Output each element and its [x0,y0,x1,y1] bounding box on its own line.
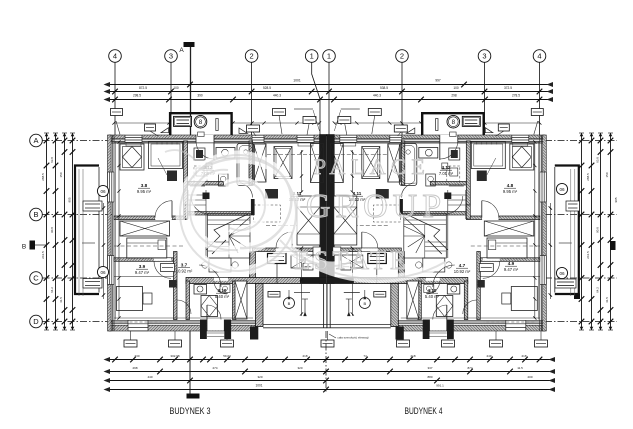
wall room3.8 right [184,141,188,205]
svg-text:249: 249 [486,354,491,358]
svg-text:06: 06 [559,187,565,192]
wardrobe X room 3.7 [120,221,170,236]
slope arrow patio [304,299,306,314]
dashed shower square bath 3.12 [194,166,207,185]
svg-text:ESTATE: ESTATE [294,246,410,275]
small square near party wardrobe [313,247,321,255]
bottom porch wall right [224,320,231,340]
ramp triangle left of porch [161,128,169,133]
dark label box 3.11 [265,189,278,199]
section flag A top [184,42,195,47]
svg-text:D: D [33,317,39,326]
chair room 3.9 [143,293,152,304]
svg-text:7.05 m²: 7.05 m² [439,171,454,176]
wall 3.7|3.9 [114,258,174,262]
dashed beam line 3.11 [266,225,319,227]
svg-text:10.92 m²: 10.92 m² [176,269,193,274]
grid bubble 4 at x=539.5 [533,50,546,63]
label box GZ near party bottom [303,264,313,271]
right building (mirror) [327,109,579,340]
svg-text:41.5: 41.5 [605,297,609,303]
label boxes above top wall [111,109,123,116]
grid bubble A left [30,134,43,147]
entry door leaf+arc [213,143,215,160]
svg-text:4: 4 [113,52,117,61]
tiny marks along top wall interior [156,142,158,145]
svg-text:298.5: 298.5 [133,94,141,98]
label box KZ at 227 [221,340,234,347]
axis line 4 [539,63,541,136]
label box KZ at 130.5 [124,340,137,347]
svg-text:3.7: 3.7 [181,263,188,268]
door 3.11 [276,248,292,251]
svg-text:63.8: 63.8 [596,157,600,163]
svg-text:4.7: 4.7 [459,263,466,268]
interior dim chain 3.11 [301,150,303,192]
side dimension chain 1 [46,133,48,330]
svg-text:150: 150 [59,172,63,177]
grid bubble 2 at x=251.6 [245,50,258,63]
axis line 1 [328,63,330,136]
svg-text:298: 298 [132,366,137,370]
svg-text:1001: 1001 [255,384,262,388]
window left wall lower [108,256,115,285]
thin line under rooms [114,276,174,278]
svg-text:3: 3 [169,52,173,61]
svg-text:11.5: 11.5 [517,366,523,370]
outer wall bottom [109,319,256,321]
top dimension line 2 [107,91,550,93]
label box lower left [161,264,175,272]
svg-text:150: 150 [605,172,609,177]
axis line 4 [114,63,116,136]
bath3.10 door [214,278,228,281]
party wall center gap [326,136,328,283]
svg-text:218: 218 [302,354,307,358]
svg-text:4: 4 [537,52,541,61]
label box KZ at 496 [490,340,503,347]
svg-text:390: 390 [197,94,203,98]
side dimension chain 2 [591,133,593,330]
stair upper flight treads [188,194,206,196]
hall circles bottom [284,298,295,309]
party fence thin [323,284,325,328]
top dimension line 3 [107,99,550,101]
svg-text:440.3: 440.3 [373,94,381,98]
back door opening bottom wall [207,320,224,331]
terrace slope note [82,242,95,244]
svg-text:1: 1 [327,52,331,61]
bottom dimension line 4 [107,389,552,391]
inner wall face lines [115,141,117,320]
axis line 2 [401,63,403,136]
toilet bath 3.10 [194,285,207,295]
grid line C [43,277,115,279]
svg-text:90.8: 90.8 [596,227,600,233]
bottom dimension line 3 [107,380,552,382]
label box KZ inside hall [268,292,280,298]
svg-text:440: 440 [147,375,152,379]
stairs left building [208,214,251,259]
party wall (half) [320,135,328,284]
side dimension chain 4 [610,133,612,330]
grid bubble 4 at x=115 [109,50,122,63]
window top wall room 3.11 [297,135,314,143]
svg-text:3.10: 3.10 [218,288,227,293]
dresser room 3.8 [149,142,183,169]
corridor wall extension [184,205,188,219]
exterior dim line above wall right [233,122,320,124]
terrace circle 06 lower right [556,267,567,278]
bath3.10 right wall [233,281,237,320]
svg-text:288.5: 288.5 [586,173,590,181]
svg-text:90.8: 90.8 [50,227,54,233]
svg-text:B: B [22,244,26,251]
washer dark box bath 3.12 [194,148,205,160]
wardrobe X 3.11 [274,147,292,179]
svg-text:3.8: 3.8 [141,183,148,188]
svg-text:64.2: 64.2 [596,287,600,293]
grid line B [43,214,115,216]
door arc room 3.8 [155,216,172,219]
terrace outline [75,166,99,295]
svg-text:9.47 m²: 9.47 m² [135,270,150,275]
svg-text:905: 905 [68,197,72,202]
svg-text:288.5: 288.5 [41,173,45,181]
side dimension chain 3 [64,133,66,330]
axis line 3 [170,63,172,136]
svg-text:528.5: 528.5 [263,86,271,90]
grid bubble 3 at x=484.5 [478,50,491,63]
wall bath3.12 bottom [188,182,224,186]
bottom dimension line 1 [107,359,552,361]
wall room3.8 bottom [114,216,155,220]
side dimension chain 4 [72,133,74,330]
svg-text:GROUP: GROUP [306,188,446,225]
wardrobe diamond room 3.8 [120,144,144,170]
stair zigzag cut [206,214,248,250]
stair wall stubs [203,193,210,200]
svg-text:218: 218 [521,354,526,358]
radiator under 3.11 window [298,143,313,147]
svg-text:2: 2 [400,52,404,61]
svg-text:302.98: 302.98 [170,354,180,358]
dashed rect 3.11 [254,205,281,222]
svg-text:PALACE: PALACE [314,154,431,179]
label box KZ at 175 [169,340,182,347]
rear recess wall [186,278,327,284]
small flag right lower [574,294,580,300]
svg-text:872.5: 872.5 [139,86,147,90]
porch top walls [170,113,232,135]
svg-text:06: 06 [559,271,565,276]
axis line 2 [251,63,253,136]
grid bubble 2 at x=402 [396,50,409,63]
door arc room 3.7 [199,265,221,287]
side dimension chain 1 [581,133,583,330]
svg-text:997: 997 [435,79,441,83]
grid bubble 1 at x=311.7 [305,50,318,63]
svg-text:B: B [33,210,38,219]
dashed guide room3.9 [120,321,171,323]
svg-text:4.12: 4.12 [442,165,451,170]
stairs up arrow [212,240,226,254]
svg-text:1: 1 [310,52,314,61]
label box KZ at 448 [442,340,455,347]
wall bath3.12 right [249,141,253,185]
svg-text:2: 2 [250,52,254,61]
patio side wall [256,284,264,327]
grid bubble C left [30,272,43,285]
svg-text:241.5: 241.5 [586,251,590,259]
tiny text patio [294,292,310,294]
stairs door arc [191,196,209,214]
svg-text:41.5: 41.5 [59,297,63,303]
shower bath 3.10 [201,296,218,317]
label box KZ at 327.5 [321,340,334,347]
terrace circle 06 upper right [556,183,567,194]
window top wall room 3.8 [125,135,142,143]
svg-text:cała szerokość elewacji: cała szerokość elewacji [337,336,369,340]
svg-text:337: 337 [427,366,432,370]
svg-text:1001: 1001 [293,79,301,83]
svg-text:100: 100 [453,86,459,90]
svg-text:A: A [179,47,184,54]
section flag A bottom [187,394,200,399]
grid bubble D left [30,315,43,328]
grid bubble 1 at x=329 [323,50,336,63]
svg-text:06: 06 [100,189,106,194]
svg-text:59.03: 59.03 [223,354,231,358]
svg-text:320: 320 [297,366,302,370]
svg-text:218: 218 [410,354,415,358]
tall xstrip 3.11 right [311,144,324,183]
grid bubble B left [30,208,43,221]
section flag B right [610,241,616,250]
svg-text:4.9: 4.9 [508,261,515,266]
svg-text:880: 880 [427,375,432,379]
svg-text:5.40 m²: 5.40 m² [425,294,440,299]
desk room 3.9 [117,287,143,311]
table room 3.7 [209,258,231,272]
svg-text:BUDYNEK 4: BUDYNEK 4 [405,406,443,416]
entry door opening top wall [196,135,214,143]
svg-text:B: B [363,301,366,306]
wall corridor vertical [174,252,178,320]
watermark monogram [165,150,445,279]
svg-text:538.5: 538.5 [380,86,388,90]
dashed sill line 3.11 [267,154,319,156]
door arc room 3.9 [154,258,171,261]
svg-text:991.1: 991.1 [436,384,444,388]
svg-text:9.95 m²: 9.95 m² [137,189,152,194]
svg-text:905: 905 [614,197,618,202]
bath3.10 left wall [186,281,190,320]
svg-text:372.5: 372.5 [504,86,512,90]
axis line 1 [312,63,320,136]
grid line D [43,321,115,323]
terrace inner lines [78,169,80,296]
leader lines to top label boxes [116,121,120,135]
svg-text:874: 874 [467,366,472,370]
terrace circle 06 upper left [97,185,108,196]
svg-text:63.8: 63.8 [50,157,54,163]
svg-text:4.10: 4.10 [428,288,437,293]
top dimension line 1 (overall) [107,84,550,86]
svg-text:06: 06 [100,270,106,275]
svg-text:64.2: 64.2 [50,287,54,293]
svg-text:9.95 m²: 9.95 m² [503,189,518,194]
porch circle 8 [194,115,207,128]
terrace circle 06 lower left [97,266,108,277]
svg-text:320: 320 [257,375,262,379]
building unit group (left; mirrored for right) [75,109,327,340]
svg-text:C: C [33,274,39,283]
grid line A [43,140,115,142]
svg-text:440.3: 440.3 [273,94,281,98]
svg-text:200: 200 [527,375,532,379]
bottom porch wall left [200,320,207,340]
svg-text:298: 298 [451,94,457,98]
svg-text:100: 100 [173,86,179,90]
sink 3.10 [220,285,230,293]
section flag B left [30,241,36,250]
patio edge lines [263,324,327,326]
large wardrobe 3.11 party side [297,196,320,245]
axis line 3 [484,63,486,136]
wardrobe X patio-adjacent [235,281,247,319]
washbasin bath 3.12 [216,148,235,159]
tiny boxes under circle [198,132,204,137]
svg-text:B: B [288,301,291,306]
wall above stairs [186,212,254,216]
exterior dim line above wall left [114,122,169,124]
svg-text:74: 74 [363,354,367,358]
porch label box WRE.12 [174,116,192,126]
bottom dimension line 2 [107,371,552,373]
svg-text:9.47 m²: 9.47 m² [504,267,519,272]
door arc corridor to hall [177,300,191,314]
patio side wall stub [250,327,258,340]
interior dim chain vertical [118,142,120,318]
svg-text:8: 8 [452,119,456,126]
window top wall room 3.12 [252,135,264,143]
svg-text:A: A [33,136,38,145]
dark box corridor corner [169,280,177,288]
bottom porch steps [207,332,224,334]
bathtub bath 3.12 [237,144,255,186]
label box KZ at 541 [535,340,548,347]
toilet bath 3.12 [219,174,229,186]
svg-text:3: 3 [482,52,486,61]
dashed lines lower hall [114,245,183,247]
label box KZ at 403 [397,340,410,347]
svg-text:10.92 m²: 10.92 m² [454,269,471,274]
svg-text:278.5: 278.5 [512,94,520,98]
wall 3.11 bottom [253,248,320,252]
svg-text:5.40 m²: 5.40 m² [215,294,230,299]
side dimension chain 3 [600,133,602,330]
cluster near bath 3.12 door [196,168,204,176]
ramp triangle right of porch [239,128,248,133]
svg-text:8: 8 [199,119,203,126]
outer wall top [109,135,327,139]
wall below 3.11 [250,252,256,278]
grid bubble 3 at x=171 [165,50,178,63]
svg-text:230: 230 [134,354,139,358]
tall xstrip 3.11 left [254,144,267,182]
axis stub below party wall [325,331,327,392]
tiny note above wall [294,108,313,110]
svg-text:274: 274 [212,366,217,370]
bed room 3.7 [127,238,167,258]
radiator under 3.8 window [126,143,141,147]
label box WRE lower [268,254,287,264]
interior chain ticks 3.11 [300,150,303,153]
small dark box wal63 [167,171,177,182]
svg-text:3.9: 3.9 [139,264,146,269]
svg-text:4.8: 4.8 [507,183,514,188]
window bottom wall room 3.9 [128,320,148,331]
outside dim line near terrace [103,203,105,299]
outer wall left [108,135,112,331]
svg-text:241.5: 241.5 [41,251,45,259]
window left wall upper [108,172,115,202]
svg-text:BUDYNEK 3: BUDYNEK 3 [170,406,211,416]
bath3.12 door [238,183,253,198]
side dimension chain 2 [55,133,57,330]
porch door leaf [216,119,218,131]
